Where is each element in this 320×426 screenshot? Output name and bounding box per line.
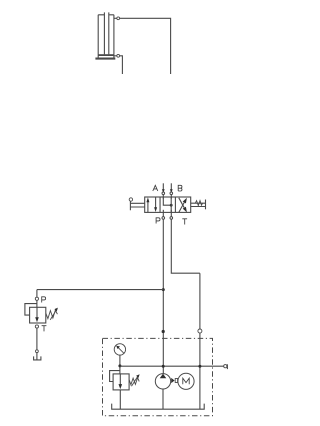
relief valve RV1 body — [30, 307, 46, 323]
connection dot on P line above power unit — [162, 330, 165, 333]
cylinder bottom port stub — [114, 55, 117, 57]
connection circle on RV1 drain — [36, 350, 39, 353]
valve V1 centre blocked P stub — [162, 210, 164, 213]
pressure gauge G1 — [114, 344, 125, 355]
tank T1 — [34, 356, 41, 360]
port T circle — [170, 217, 173, 220]
relief valve RV1 flow arrow — [35, 307, 39, 322]
port P stub below valve — [162, 212, 164, 216]
label B — [178, 185, 182, 191]
cylinder C1 piston — [98, 54, 113, 56]
port A stub into valve — [162, 195, 164, 199]
label T at RV1 — [42, 326, 47, 332]
port B circle — [170, 192, 173, 195]
wire from cylinder top port — [120, 18, 171, 74]
reservoir tank T2 — [112, 404, 205, 410]
relief valve RV2 flow arrow — [119, 374, 123, 389]
wire branch to relief valve RV1 — [37, 290, 163, 298]
pump suction wire — [162, 389, 164, 409]
relief valve RV2 pilot line — [110, 371, 120, 382]
external port plug bar — [226, 364, 228, 369]
label P at RV1 — [42, 297, 46, 303]
label P — [156, 218, 160, 224]
port P circle — [162, 217, 165, 220]
node B arrowhead — [170, 189, 173, 192]
shaft coupling — [171, 378, 177, 383]
valve V1 left position down arrow — [154, 197, 157, 212]
valve V1 centre B-T line — [170, 197, 172, 212]
relief valve RV2 drain wire — [119, 390, 121, 409]
cylinder top port stub — [114, 17, 117, 19]
relief valve RV1 spring — [46, 308, 58, 320]
wire RV1 to tank — [36, 328, 38, 360]
port A circle — [162, 192, 165, 195]
relief valve RV2 body — [113, 374, 129, 390]
node A arrowhead — [162, 189, 165, 192]
electric motor M1 — [178, 373, 194, 389]
port T stub below valve — [170, 210, 172, 217]
relief valve RV2 spring — [129, 374, 140, 386]
label A — [153, 185, 158, 191]
wire RV1 P to body — [36, 300, 38, 307]
valve V1 lever actuator — [130, 201, 144, 210]
cylinder bottom port circle — [117, 54, 120, 57]
connection circle on return line — [198, 329, 202, 333]
wire P line from valve to pump — [162, 219, 164, 373]
wire from cylinder bottom port — [120, 56, 123, 74]
valve V1 lever actuator circle — [129, 198, 132, 201]
external port circle — [224, 365, 227, 368]
wire T return from valve to power unit — [171, 219, 200, 409]
node A wire above valve — [162, 183, 164, 191]
pump P1 — [155, 374, 170, 389]
junction dot P branch — [162, 288, 165, 291]
valve V1 centre junction dot — [170, 204, 173, 207]
directional valve V1 body — [145, 197, 191, 212]
relief valve RV1 P circle — [35, 297, 38, 300]
junction dot return line — [198, 365, 201, 368]
valve V1 left position up arrow — [146, 197, 149, 212]
relief valve RV1 T circle — [35, 325, 38, 328]
cylinder C1 base plate — [95, 58, 115, 60]
relief valve RV1 pilot line — [25, 304, 37, 316]
label T — [182, 219, 187, 225]
valve V1 centre position elbow A to B/T — [163, 197, 170, 205]
valve V1 right position crossed arrows — [179, 198, 187, 213]
cylinder top port circle — [117, 17, 120, 20]
port B stub into valve — [170, 195, 172, 199]
junction dot pump outlet — [162, 365, 165, 368]
power unit enclosure (dash-dot box) — [103, 338, 213, 415]
cylinder C1 piston rod — [104, 12, 108, 54]
node B wire above valve — [170, 183, 172, 191]
junction dot gauge line — [118, 364, 121, 367]
cylinder C1 body — [98, 15, 114, 58]
gauge stem wire — [119, 355, 121, 374]
valve V1 return spring — [191, 200, 206, 210]
pressure manifold wire — [120, 365, 224, 367]
